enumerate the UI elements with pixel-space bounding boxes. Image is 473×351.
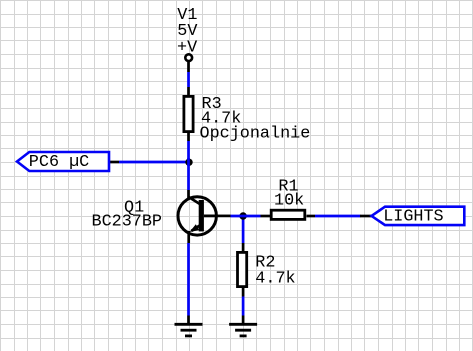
svg-text:LIGHTS: LIGHTS — [383, 208, 443, 227]
svg-text:PC6 µC: PC6 µC — [29, 153, 89, 172]
svg-text:Opcjonalnie: Opcjonalnie — [200, 125, 311, 144]
svg-text:BC237BP: BC237BP — [92, 213, 163, 232]
svg-text:4.7k: 4.7k — [255, 270, 295, 289]
svg-text:10k: 10k — [274, 192, 304, 211]
svg-text:+V: +V — [177, 39, 197, 58]
